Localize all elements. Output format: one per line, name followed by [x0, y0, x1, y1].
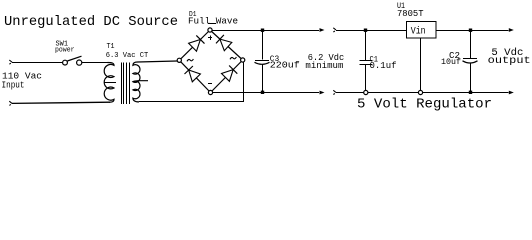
- transformer T1: [104, 63, 114, 103]
- svg-text:0.1uf: 0.1uf: [370, 61, 397, 71]
- bridge AC mark left: [187, 59, 193, 61]
- junction C2 top: [469, 29, 472, 32]
- bridge terminal AC left: [177, 58, 181, 62]
- wire positive rail (bridge to connector): [212, 30, 319, 32]
- svg-text:6.3 Vac CT: 6.3 Vac CT: [106, 52, 149, 60]
- bridge edge AC-left to plus: [179, 30, 210, 60]
- svg-text:Full Wave: Full Wave: [188, 15, 238, 26]
- pin U1 ground: [420, 38, 422, 90]
- bridge plus mark: [210, 36, 212, 40]
- regulator U1 box: [407, 22, 437, 39]
- terminal C1 bottom: [364, 90, 368, 94]
- bridge terminal plus: [208, 28, 212, 32]
- bridge AC mark right: [230, 57, 236, 59]
- capacitor C1: [365, 30, 367, 60]
- wire positive rail (U1 to output): [436, 30, 509, 32]
- svg-text:220uf: 220uf: [270, 60, 300, 71]
- svg-text:10uf: 10uf: [441, 57, 461, 67]
- svg-text:Vin: Vin: [411, 25, 426, 37]
- bridge terminal minus: [208, 90, 212, 94]
- junction C3 bottom: [261, 91, 264, 94]
- wire negative rail (connector to output): [333, 90, 336, 94]
- terminal U1 ground: [418, 90, 422, 94]
- capacitor C2: [470, 30, 472, 58]
- wire AC input top: [9, 60, 12, 64]
- diode D1d (bottom-right edge): [222, 70, 234, 82]
- svg-text:Input: Input: [2, 80, 25, 90]
- connector arrow positive right end: [509, 28, 514, 32]
- junction C3 top: [261, 29, 264, 32]
- diode D1a (left-top edge): [189, 40, 201, 52]
- wire negative rail (bridge to connector): [213, 92, 319, 94]
- bridge terminal AC right: [241, 58, 245, 62]
- switch SW1: [63, 60, 68, 65]
- wire AC input bottom: [9, 101, 12, 105]
- bridge edge minus to AC-right: [211, 60, 243, 93]
- bridge edge AC-left to minus: [179, 60, 210, 92]
- junction C1 top: [364, 29, 367, 32]
- bridge minus mark: [208, 83, 212, 85]
- svg-text:5 Volt Regulator: 5 Volt Regulator: [357, 97, 492, 113]
- svg-text:7805T: 7805T: [397, 8, 424, 19]
- wire T1 secondary top to bridge: [138, 61, 178, 62]
- diode D1c (bottom-left edge): [189, 70, 201, 82]
- wire T1 primary tap stub: [104, 82, 116, 84]
- junction C2 bottom: [469, 91, 472, 94]
- bridge edge plus to AC-right: [210, 30, 243, 60]
- svg-text:Unregulated DC Source: Unregulated DC Source: [4, 14, 178, 30]
- connector arrow positive out: [320, 28, 325, 32]
- svg-text:T1: T1: [107, 43, 115, 51]
- svg-text:output: output: [488, 55, 531, 67]
- wire SW1 to T1: [82, 62, 110, 64]
- connector arrow negative out: [320, 91, 325, 95]
- capacitor C3: [262, 30, 264, 60]
- wire positive rail (connector to U1): [333, 28, 336, 32]
- wire T1 secondary bottom to bridge: [139, 101, 243, 103]
- svg-text:power: power: [55, 46, 75, 54]
- wire T1 center tap stub: [134, 81, 149, 82]
- diode D1b (right-top edge): [220, 39, 232, 51]
- connector arrow negative right end: [509, 91, 514, 95]
- svg-text:minimum: minimum: [305, 61, 343, 71]
